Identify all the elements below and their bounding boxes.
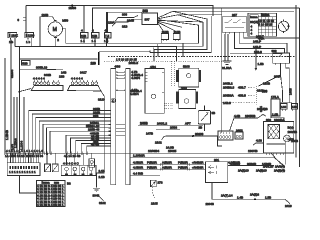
wire 201 drop — [211, 183, 213, 200]
svg-text:22B: 22B — [93, 114, 98, 118]
pin tick on drop — [23, 18, 25, 21]
svg-text:1 4: 1 4 — [92, 39, 97, 43]
svg-text:2A(3)(4): 2A(3)(4) — [274, 169, 285, 173]
instrument strip B — [126, 69, 130, 185]
wire 20B3 — [156, 128, 180, 130]
connector box 52B — [22, 60, 31, 65]
svg-text:4.0B3R: 4.0B3R — [133, 166, 144, 170]
heater resistor hatched — [268, 124, 280, 138]
svg-text:113Z: 113Z — [11, 34, 18, 38]
relay box E 4/50 — [176, 90, 198, 109]
svg-text:2102: 2102 — [155, 141, 162, 145]
wire loop rect R2 — [158, 15, 203, 47]
wire left vertical x4.9 — [4, 58, 6, 153]
relay box 267 — [222, 13, 247, 34]
connector trapezoid T1 — [31, 77, 63, 91]
fuse table box — [248, 13, 277, 36]
wire 20203 run — [162, 136, 222, 146]
fuse box 7.5A — [104, 12, 111, 43]
svg-text:3102: 3102 — [99, 201, 106, 205]
wire relay pin1 to ground — [224, 34, 226, 61]
svg-text:2A(7).14: 2A(7).14 — [221, 194, 233, 198]
svg-text:4 4 4 4 4: 4 4 4 4 4 — [71, 77, 83, 81]
wire junction to trapezoid T1 — [19, 89, 31, 92]
wire right edge vertical 2 — [299, 8, 301, 167]
wire left vertical x17 — [16, 97, 18, 153]
wire right stub lines near box bottom — [266, 142, 285, 165]
connector trapezoid T2 — [68, 77, 102, 92]
wire long vertical x221.8 — [221, 8, 223, 133]
pin arrows between strips — [116, 72, 125, 135]
svg-text:15035: 15035 — [168, 149, 177, 153]
wire bottom run right — [212, 199, 290, 203]
relay box C 4/84 — [145, 69, 164, 114]
motor M1 — [48, 20, 66, 46]
wire run 3 — [131, 174, 160, 176]
bus bar thick stub — [98, 52, 100, 65]
svg-text:208B3.8: 208B3.8 — [223, 86, 235, 90]
svg-text:P(B)2R: P(B)2R — [147, 161, 158, 165]
svg-text:Imma: Imma — [250, 15, 258, 19]
svg-text:20B3: 20B3 — [170, 126, 177, 130]
lamp box hatched L1 — [45, 164, 51, 172]
svg-text:110B: 110B — [174, 30, 181, 34]
svg-text:61504: 61504 — [10, 69, 14, 78]
connector box 140 — [281, 103, 288, 110]
svg-text:4 C 4 C 4 C: 4 C 4 C 4 C — [63, 162, 80, 166]
diode box 201 — [206, 162, 228, 183]
svg-text:4.4 R/B: 4.4 R/B — [133, 172, 143, 176]
svg-text:160B: 160B — [291, 139, 298, 143]
svg-text:20B2R: 20B2R — [247, 162, 257, 166]
horn 273 — [151, 180, 157, 187]
svg-text:208B3A: 208B3A — [223, 94, 234, 98]
node junction 15/58 — [71, 4, 73, 6]
wire corner row 6 — [46, 128, 110, 153]
svg-text:3.04: 3.04 — [259, 106, 263, 112]
svg-text:308: 308 — [122, 13, 127, 17]
svg-text:273: 273 — [158, 181, 163, 185]
connector block C100 — [7, 163, 40, 176]
svg-text:11B: 11B — [81, 34, 86, 38]
svg-text:5 10 15 25: 5 10 15 25 — [258, 23, 273, 27]
svg-text:1.1B4B: 1.1B4B — [5, 130, 9, 140]
svg-text:11B: 11B — [92, 34, 97, 38]
connector box 150 — [291, 103, 297, 110]
svg-text:201: 201 — [214, 158, 219, 162]
relay box 302 — [273, 53, 290, 65]
svg-text:16050B: 16050B — [245, 114, 255, 118]
svg-text:14B.P: 14B.P — [253, 45, 261, 49]
wire switch to connector — [204, 124, 206, 131]
wire relay pin4 y43.3 — [239, 34, 287, 53]
svg-text:4.0B2R: 4.0B2R — [133, 161, 144, 165]
wire 4.0B 16050B run — [230, 114, 267, 131]
wire loop rect R1 — [162, 25, 199, 43]
connector box 1130 — [25, 33, 35, 45]
wire to 3102 — [99, 197, 104, 201]
wire left vertical x24 — [23, 97, 25, 153]
wire 302 pin3 drop — [286, 65, 290, 103]
svg-text:110B: 110B — [162, 30, 169, 34]
wire relay pin5 y38.1 — [244, 34, 300, 38]
wire AFT 240/1.2 — [138, 124, 203, 126]
svg-text:+R4B3R: +R4B3R — [192, 166, 204, 170]
svg-text:1 b: 1 b — [26, 40, 31, 44]
svg-text:147B: 147B — [146, 132, 153, 136]
pins bottom — [266, 153, 284, 155]
wire lower row 1 — [66, 135, 111, 153]
lamp box hatched L2 — [52, 164, 58, 172]
bulb box small B5 — [89, 159, 95, 168]
svg-text:3048: 3048 — [93, 194, 100, 198]
svg-text:160B.8: 160B.8 — [129, 61, 139, 65]
svg-text:10/09B4: 10/09B4 — [148, 149, 160, 153]
wire corner row 7 — [50, 131, 111, 153]
svg-text:4.0B3R: 4.0B3R — [230, 162, 241, 166]
svg-text:AFT: AFT — [185, 121, 191, 125]
svg-text:2A/3.10: 2A/3.10 — [263, 165, 274, 169]
wire loop rect R3 — [154, 11, 207, 49]
dashed vertical x256 — [255, 86, 257, 105]
wire top bus line 1 — [26, 5, 213, 16]
svg-text:M59: M59 — [62, 18, 68, 22]
wire mid bus line y43.3 — [66, 29, 183, 44]
svg-text:1 4: 1 4 — [81, 39, 86, 43]
connector 110B b — [173, 30, 180, 41]
svg-text:4/86: 4/86 — [115, 65, 121, 69]
dotted leads box C to E — [164, 103, 173, 108]
svg-text:52B: 52B — [22, 61, 27, 65]
wire drops to lamp boxes — [47, 153, 55, 164]
svg-text:4.0B/4: 4.0B/4 — [130, 92, 139, 96]
wire fan from relay 307 — [158, 11, 294, 30]
svg-text:1.0B: 1.0B — [272, 113, 278, 117]
wire corner row 1 — [29, 111, 111, 154]
wire verticals from bus end — [177, 43, 184, 61]
svg-text:1.5B: 1.5B — [265, 196, 271, 200]
wire box1130 pins to bus y46 — [31, 40, 33, 47]
connector box row b — [235, 132, 243, 139]
svg-text:2105: 2105 — [151, 202, 158, 206]
wire loop rect R4 — [150, 16, 211, 52]
svg-text:14B.P: 14B.P — [253, 40, 261, 44]
svg-text:14B: 14B — [61, 71, 66, 75]
wire left vertical x19.4 — [18, 46, 20, 153]
wire box1132 pin to bus y46 — [14, 40, 16, 47]
svg-text:2.1B: 2.1B — [99, 175, 105, 179]
svg-text:4.03: 4.03 — [256, 139, 262, 143]
wire y69.5 to trapezoid — [19, 68, 63, 71]
svg-text:14B.8: 14B.8 — [254, 50, 262, 54]
wire left vertical x14 — [13, 97, 15, 153]
svg-text:40B.8: 40B.8 — [238, 94, 246, 98]
wire corner row 4 — [39, 121, 110, 153]
wire run 2b — [131, 168, 206, 170]
dashed bus lower — [104, 60, 222, 62]
svg-text:1130: 1130 — [28, 34, 35, 38]
svg-text:150: 150 — [292, 105, 297, 109]
svg-text:M: M — [53, 27, 57, 33]
wire relay pin3 y48.5 — [235, 34, 285, 53]
connector box 1132 — [8, 33, 18, 45]
svg-text:1408: 1408 — [289, 88, 293, 95]
svg-text:240B: 240B — [140, 121, 148, 125]
svg-text:A(B)3R: A(B)3R — [162, 166, 173, 170]
legend table — [37, 181, 66, 208]
svg-text:307: 307 — [145, 18, 150, 22]
wire y53.7 — [230, 53, 282, 55]
svg-text:110A: 110A — [108, 21, 115, 25]
svg-text:34B.7: 34B.7 — [256, 34, 264, 38]
strip pins right side — [130, 157, 132, 175]
svg-text:31.53A: 31.53A — [222, 66, 232, 70]
wire 310B step — [112, 19, 142, 26]
svg-text:B(+): B(+) — [288, 126, 294, 130]
wire left vertical x11 — [10, 40, 12, 154]
bulb box B4 — [61, 165, 96, 175]
wire fuse a feed — [83, 5, 85, 28]
wire lower row 5 — [87, 146, 111, 153]
wire 160(5)A from 175A to control box — [271, 116, 284, 121]
svg-text:23048: 23048 — [206, 202, 215, 206]
svg-text:P(B)3R: P(B)3R — [147, 166, 158, 170]
svg-text:1.4B: 1.4B — [237, 196, 243, 200]
wire 308 step — [115, 16, 138, 22]
svg-text:110B: 110B — [42, 13, 49, 17]
svg-text:310B: 310B — [263, 82, 270, 86]
relay box D 5208 — [176, 68, 201, 87]
wire 302 pin2 down to Y branch — [259, 65, 283, 102]
svg-text:40B.7: 40B.7 — [238, 86, 246, 90]
wire lower row 3 — [76, 141, 111, 154]
fan motor circle — [284, 135, 291, 142]
svg-text:2B: 2B — [199, 126, 203, 130]
svg-text:4.0S/4: 4.0S/4 — [131, 76, 140, 80]
connector box row a — [218, 131, 233, 140]
svg-text:303: 303 — [143, 9, 149, 13]
svg-text:240/1.2: 240/1.2 — [157, 121, 167, 125]
svg-text:13B: 13B — [59, 75, 64, 79]
svg-text:1.10B2R: 1.10B2R — [133, 154, 146, 158]
svg-text:3120: 3120 — [98, 98, 105, 102]
wire lower row 4 — [81, 143, 110, 153]
svg-text:2402: 2402 — [236, 129, 243, 133]
svg-text:343B: 343B — [44, 73, 51, 77]
svg-text:310B: 310B — [127, 19, 134, 23]
svg-text:20203: 20203 — [195, 132, 204, 136]
svg-text:189: 189 — [91, 62, 97, 66]
svg-text:2A/3(4): 2A/3(4) — [275, 165, 285, 169]
wire corner row 5 — [43, 124, 111, 153]
wire right edge vertical 1 — [295, 5, 297, 158]
wire switch stub to E — [204, 106, 206, 111]
connector pin ticks on bottom bus — [5, 151, 87, 155]
wire run 2 — [131, 163, 206, 165]
svg-text:B3: B3 — [67, 182, 71, 186]
ground G2 — [93, 188, 100, 191]
wire top bus line 2 — [92, 7, 300, 9]
svg-text:2.1B: 2.1B — [99, 169, 105, 173]
svg-text:305B.19: 305B.19 — [36, 66, 48, 70]
svg-text:2A(3)10: 2A(3)10 — [256, 169, 267, 173]
wire drops to bulbs — [67, 153, 92, 165]
svg-text:2419: 2419 — [285, 204, 292, 208]
svg-text:4 1 4 1 4 1 4 1 4 1 4 1 4 1 4: 4 1 4 1 4 1 4 1 4 1 4 1 4 1 4 — [6, 149, 43, 153]
svg-text:5208: 5208 — [183, 65, 190, 69]
svg-text:302: 302 — [266, 118, 271, 122]
svg-text:175.A: 175.A — [271, 95, 279, 99]
wire lower row 2 — [70, 138, 110, 153]
instrument strip A — [111, 69, 116, 185]
wire run 1 — [131, 157, 285, 166]
svg-text:1.5B: 1.5B — [258, 62, 264, 66]
fuse box 11B b — [92, 8, 100, 46]
wire corner row 3 — [36, 117, 111, 153]
relay box 307 — [142, 13, 158, 25]
wire trapezoid tail to vertical — [101, 91, 104, 173]
svg-text:3B: 3B — [212, 111, 216, 115]
ground G1 — [222, 61, 232, 70]
wire 110B feed to motor top — [40, 17, 55, 47]
svg-text:4.0B: 4.0B — [234, 114, 240, 118]
svg-text:302: 302 — [272, 49, 277, 53]
wire control box left lead — [253, 143, 264, 145]
wire 1.5B arrow drop — [255, 49, 257, 71]
svg-text:160/4B: 160/4B — [288, 130, 298, 134]
junction box 175A — [271, 99, 280, 116]
wire from connector to table — [20, 176, 37, 193]
wire corner row 2 — [32, 114, 110, 153]
svg-text:1 2 1 2 1 2 1 2 1 2 1: 1 2 1 2 1 2 1 2 1 2 1 — [9, 170, 36, 174]
svg-text:31B: 31B — [122, 25, 127, 29]
svg-text:7.5: 7.5 — [105, 34, 110, 38]
wire ground branch — [97, 173, 105, 187]
dashed bus upper — [108, 56, 296, 58]
switch box 3B — [198, 111, 210, 124]
svg-text:2A(2)10: 2A(2)10 — [238, 169, 249, 173]
wire drops to headlamp connector — [8, 153, 39, 162]
wire dashed drop to 2105 — [153, 187, 156, 200]
svg-text:4/84: 4/84 — [150, 65, 156, 69]
wire box lid y51.3 — [99, 50, 150, 52]
ignition switch clock — [278, 20, 289, 34]
svg-text:2A(2)3: 2A(2)3 — [250, 193, 259, 197]
enclosure box around harness wires — [107, 12, 142, 46]
node junction x19.4 y91.6 — [18, 91, 20, 93]
svg-text:45-4B: 45-4B — [91, 143, 99, 147]
wire run 2 continuation right of 201 — [228, 165, 274, 167]
svg-text:4/50: 4/50 — [181, 86, 187, 90]
wire 52B feed y58.9 — [19, 58, 97, 60]
svg-text:305A: 305A — [274, 75, 281, 79]
svg-text:15/58: 15/58 — [69, 6, 77, 10]
wire long bottom bus y153.2 — [5, 152, 271, 154]
wire from 175A right to connectors — [280, 101, 292, 103]
svg-text:267: 267 — [232, 13, 237, 17]
svg-text:300: 300 — [262, 90, 268, 94]
svg-text:130/4B: 130/4B — [248, 149, 258, 153]
svg-text:A(B)2R: A(B)2R — [162, 161, 173, 165]
pin arrowheads into strip A — [108, 111, 110, 147]
wire mid bus line y46.4 — [15, 45, 177, 47]
wire relay pin2 to ground — [227, 34, 229, 61]
svg-text:+R4B2R: +R4B2R — [192, 161, 204, 165]
connector 110B a — [161, 30, 168, 41]
inline connector marks on runs — [160, 163, 189, 171]
fuse box 11B a — [81, 28, 89, 43]
svg-text:3417: 3417 — [80, 71, 87, 75]
control box B+ — [264, 122, 294, 155]
wire long line right diagonal end — [271, 153, 285, 166]
svg-text:4 4 4 4 4: 4 4 4 4 4 — [33, 77, 45, 81]
wire left drop from bus — [25, 5, 27, 32]
svg-text:4 14 B2 3 4 2B 03 1: 4 14 B2 3 4 2B 03 1 — [37, 203, 64, 207]
svg-text:140: 140 — [281, 105, 286, 109]
dashed leads into relay D — [171, 61, 173, 87]
